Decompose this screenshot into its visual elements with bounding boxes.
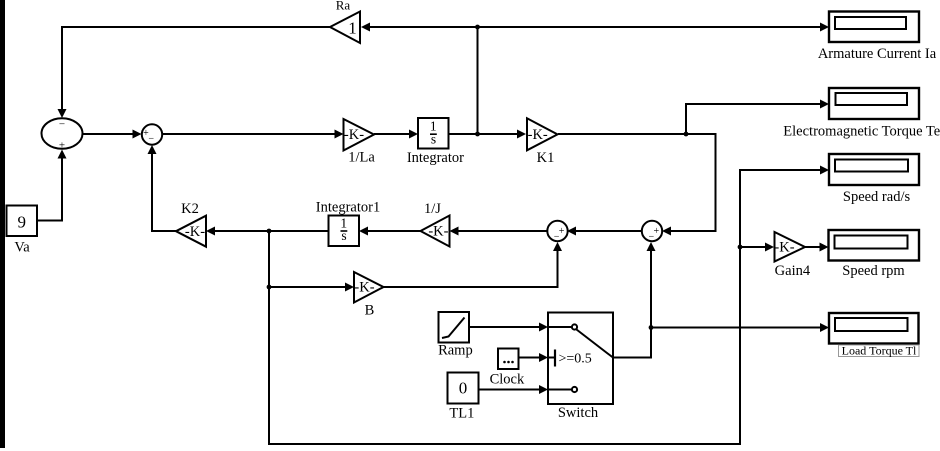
wire B to sum S3 bottom xyxy=(383,251,558,287)
scope Load Torque Tl xyxy=(829,313,919,358)
junction dot current tap top xyxy=(475,25,480,30)
svg-text:+: + xyxy=(559,226,565,237)
svg-text:1: 1 xyxy=(348,18,357,37)
ramp source xyxy=(438,312,473,359)
arrowhead into S4 bottom xyxy=(647,242,656,251)
arrowhead into 1/J xyxy=(450,227,459,236)
arrowhead into S3 right xyxy=(567,227,576,236)
wire S1 to S2 xyxy=(83,133,134,135)
wire Switch output up to sum S4 bottom xyxy=(611,251,651,358)
svg-text:1/La: 1/La xyxy=(348,150,375,166)
wire speed tap to Gain4 xyxy=(740,246,767,248)
svg-text:Integrator: Integrator xyxy=(407,150,464,166)
wire Integrator to K1 xyxy=(449,133,519,135)
svg-text:Ra: Ra xyxy=(336,0,351,13)
svg-text:−: − xyxy=(148,134,154,145)
svg-text:-K-: -K- xyxy=(354,280,374,296)
arrowhead into Switch in1 xyxy=(539,323,548,332)
arrowhead into Switch in3 xyxy=(539,385,548,394)
junction dot speed tap xyxy=(267,229,272,234)
arrowhead into S1 top xyxy=(58,109,67,118)
wire speed feedback down across bottom to Speed scope xyxy=(269,170,821,444)
wire S3 to 1/J xyxy=(459,230,547,232)
svg-text:>=0.5: >=0.5 xyxy=(559,352,592,367)
svg-text:K2: K2 xyxy=(181,201,199,217)
arrowhead into Switch in2 xyxy=(539,353,548,362)
svg-text:-K-: -K- xyxy=(774,240,794,256)
svg-text:Electromagnetic Torque Te: Electromagnetic Torque Te xyxy=(783,123,940,139)
arrowhead into K2 xyxy=(206,227,215,236)
svg-text:-K-: -K- xyxy=(428,224,448,240)
wire junction to Ra input xyxy=(369,26,478,28)
arrowhead into S4 right xyxy=(662,227,671,236)
svg-text:Speed rpm: Speed rpm xyxy=(842,263,905,279)
svg-text:Clock: Clock xyxy=(490,372,525,388)
arrowhead into S2 left xyxy=(133,130,142,139)
junction dot torque tap xyxy=(684,132,689,137)
svg-text:+: + xyxy=(59,140,65,152)
gain 1/La xyxy=(344,119,376,166)
svg-text:+: + xyxy=(653,226,659,237)
svg-text:Switch: Switch xyxy=(558,405,599,421)
wire Ra output to sum S1 top xyxy=(62,27,330,112)
svg-text:0: 0 xyxy=(459,379,468,398)
arrowhead into Armature scope xyxy=(820,23,829,32)
svg-text:Integrator1: Integrator1 xyxy=(316,200,380,216)
wire load torque tap to Load scope xyxy=(651,327,821,329)
wire 1/J to Integrator1 xyxy=(368,230,421,232)
wire Gain4 to Speed rpm scope xyxy=(805,246,821,248)
arrowhead into S1 bottom xyxy=(58,150,67,159)
wire K2 to sum S2 bottom xyxy=(152,154,176,231)
arrowhead into Speed scope xyxy=(820,166,829,175)
junction dot rpm tap xyxy=(738,245,743,250)
wire 1/La to Integrator xyxy=(374,133,410,135)
wire Va to sum S1 bottom xyxy=(37,158,62,221)
integrator1 xyxy=(316,200,380,247)
switch block xyxy=(548,313,613,422)
scope Electromagnetic Torque Te xyxy=(783,88,940,139)
gain Gain4 xyxy=(774,232,810,279)
arrowhead into Integrator1 xyxy=(359,227,368,236)
wire TL1 to Switch xyxy=(479,389,540,391)
wire speed tap to gain B xyxy=(269,286,347,288)
wire current tap vertical xyxy=(477,27,479,134)
svg-text:B: B xyxy=(365,303,375,319)
arrowhead into S2 bottom xyxy=(148,145,157,154)
svg-text:s: s xyxy=(341,228,346,243)
wire S4 to S3 xyxy=(576,230,642,232)
svg-text:1/J: 1/J xyxy=(424,201,441,217)
scope Armature Current Ia xyxy=(818,12,937,63)
wire Ramp to Switch xyxy=(469,326,540,328)
svg-text:−: − xyxy=(554,231,560,242)
arrowhead into Ra xyxy=(361,23,370,32)
arrowhead into Gain4 xyxy=(765,243,774,252)
constant Va xyxy=(7,206,38,256)
gain B xyxy=(354,272,384,319)
arrowhead into Load scope xyxy=(820,323,829,332)
svg-text:Armature Current Ia: Armature Current Ia xyxy=(818,46,937,62)
wire torque tap to Torque scope xyxy=(686,104,821,134)
sum S1 xyxy=(42,118,83,151)
sum S4 xyxy=(642,221,662,243)
svg-text:-K-: -K- xyxy=(344,127,364,143)
wire Clock to Switch xyxy=(519,357,540,359)
svg-text:Ramp: Ramp xyxy=(438,343,473,359)
integrator xyxy=(407,118,464,166)
wire K1 to sum S4 xyxy=(558,134,716,231)
gain K1 xyxy=(527,118,558,166)
arrowhead into Integrator xyxy=(409,130,418,139)
junction dot load tap xyxy=(649,325,654,330)
junction dot current tap main xyxy=(475,132,480,137)
svg-text:-K-: -K- xyxy=(185,224,205,240)
sum S2 xyxy=(142,124,162,144)
arrowhead into B xyxy=(345,283,354,292)
arrowhead into K1 xyxy=(517,130,526,139)
gain Ra xyxy=(330,0,360,43)
arrowhead into 1/La xyxy=(335,130,344,139)
svg-text:Speed rad/s: Speed rad/s xyxy=(843,189,911,205)
svg-text:Gain4: Gain4 xyxy=(775,263,811,279)
scope Speed rpm xyxy=(829,230,920,279)
svg-text:−: − xyxy=(648,231,654,242)
svg-text:s: s xyxy=(431,131,436,146)
svg-text:9: 9 xyxy=(18,213,27,232)
wire junction to Armature scope xyxy=(478,26,822,28)
arrowhead into Speed rpm scope xyxy=(820,243,829,252)
gain 1/J xyxy=(421,201,450,247)
svg-text:Load Torque Tl: Load Torque Tl xyxy=(842,344,917,358)
svg-text:TL1: TL1 xyxy=(449,406,474,422)
svg-text:-K-: -K- xyxy=(528,127,548,143)
sum S3 xyxy=(547,221,567,243)
svg-text:K1: K1 xyxy=(537,150,555,166)
junction dot B tap xyxy=(267,285,272,290)
arrowhead into Torque scope xyxy=(820,100,829,109)
wire Integrator1 to K2 xyxy=(215,230,329,232)
constant TL1 xyxy=(448,373,479,422)
clock source xyxy=(490,349,525,388)
left margin bar xyxy=(0,0,5,448)
gain K2 xyxy=(176,201,206,247)
wire S2 to 1/La xyxy=(162,133,336,135)
scope Speed rad/s xyxy=(829,154,919,205)
arrowhead into S3 bottom xyxy=(553,242,562,251)
svg-text:−: − xyxy=(59,119,65,131)
svg-text:Va: Va xyxy=(14,240,30,256)
